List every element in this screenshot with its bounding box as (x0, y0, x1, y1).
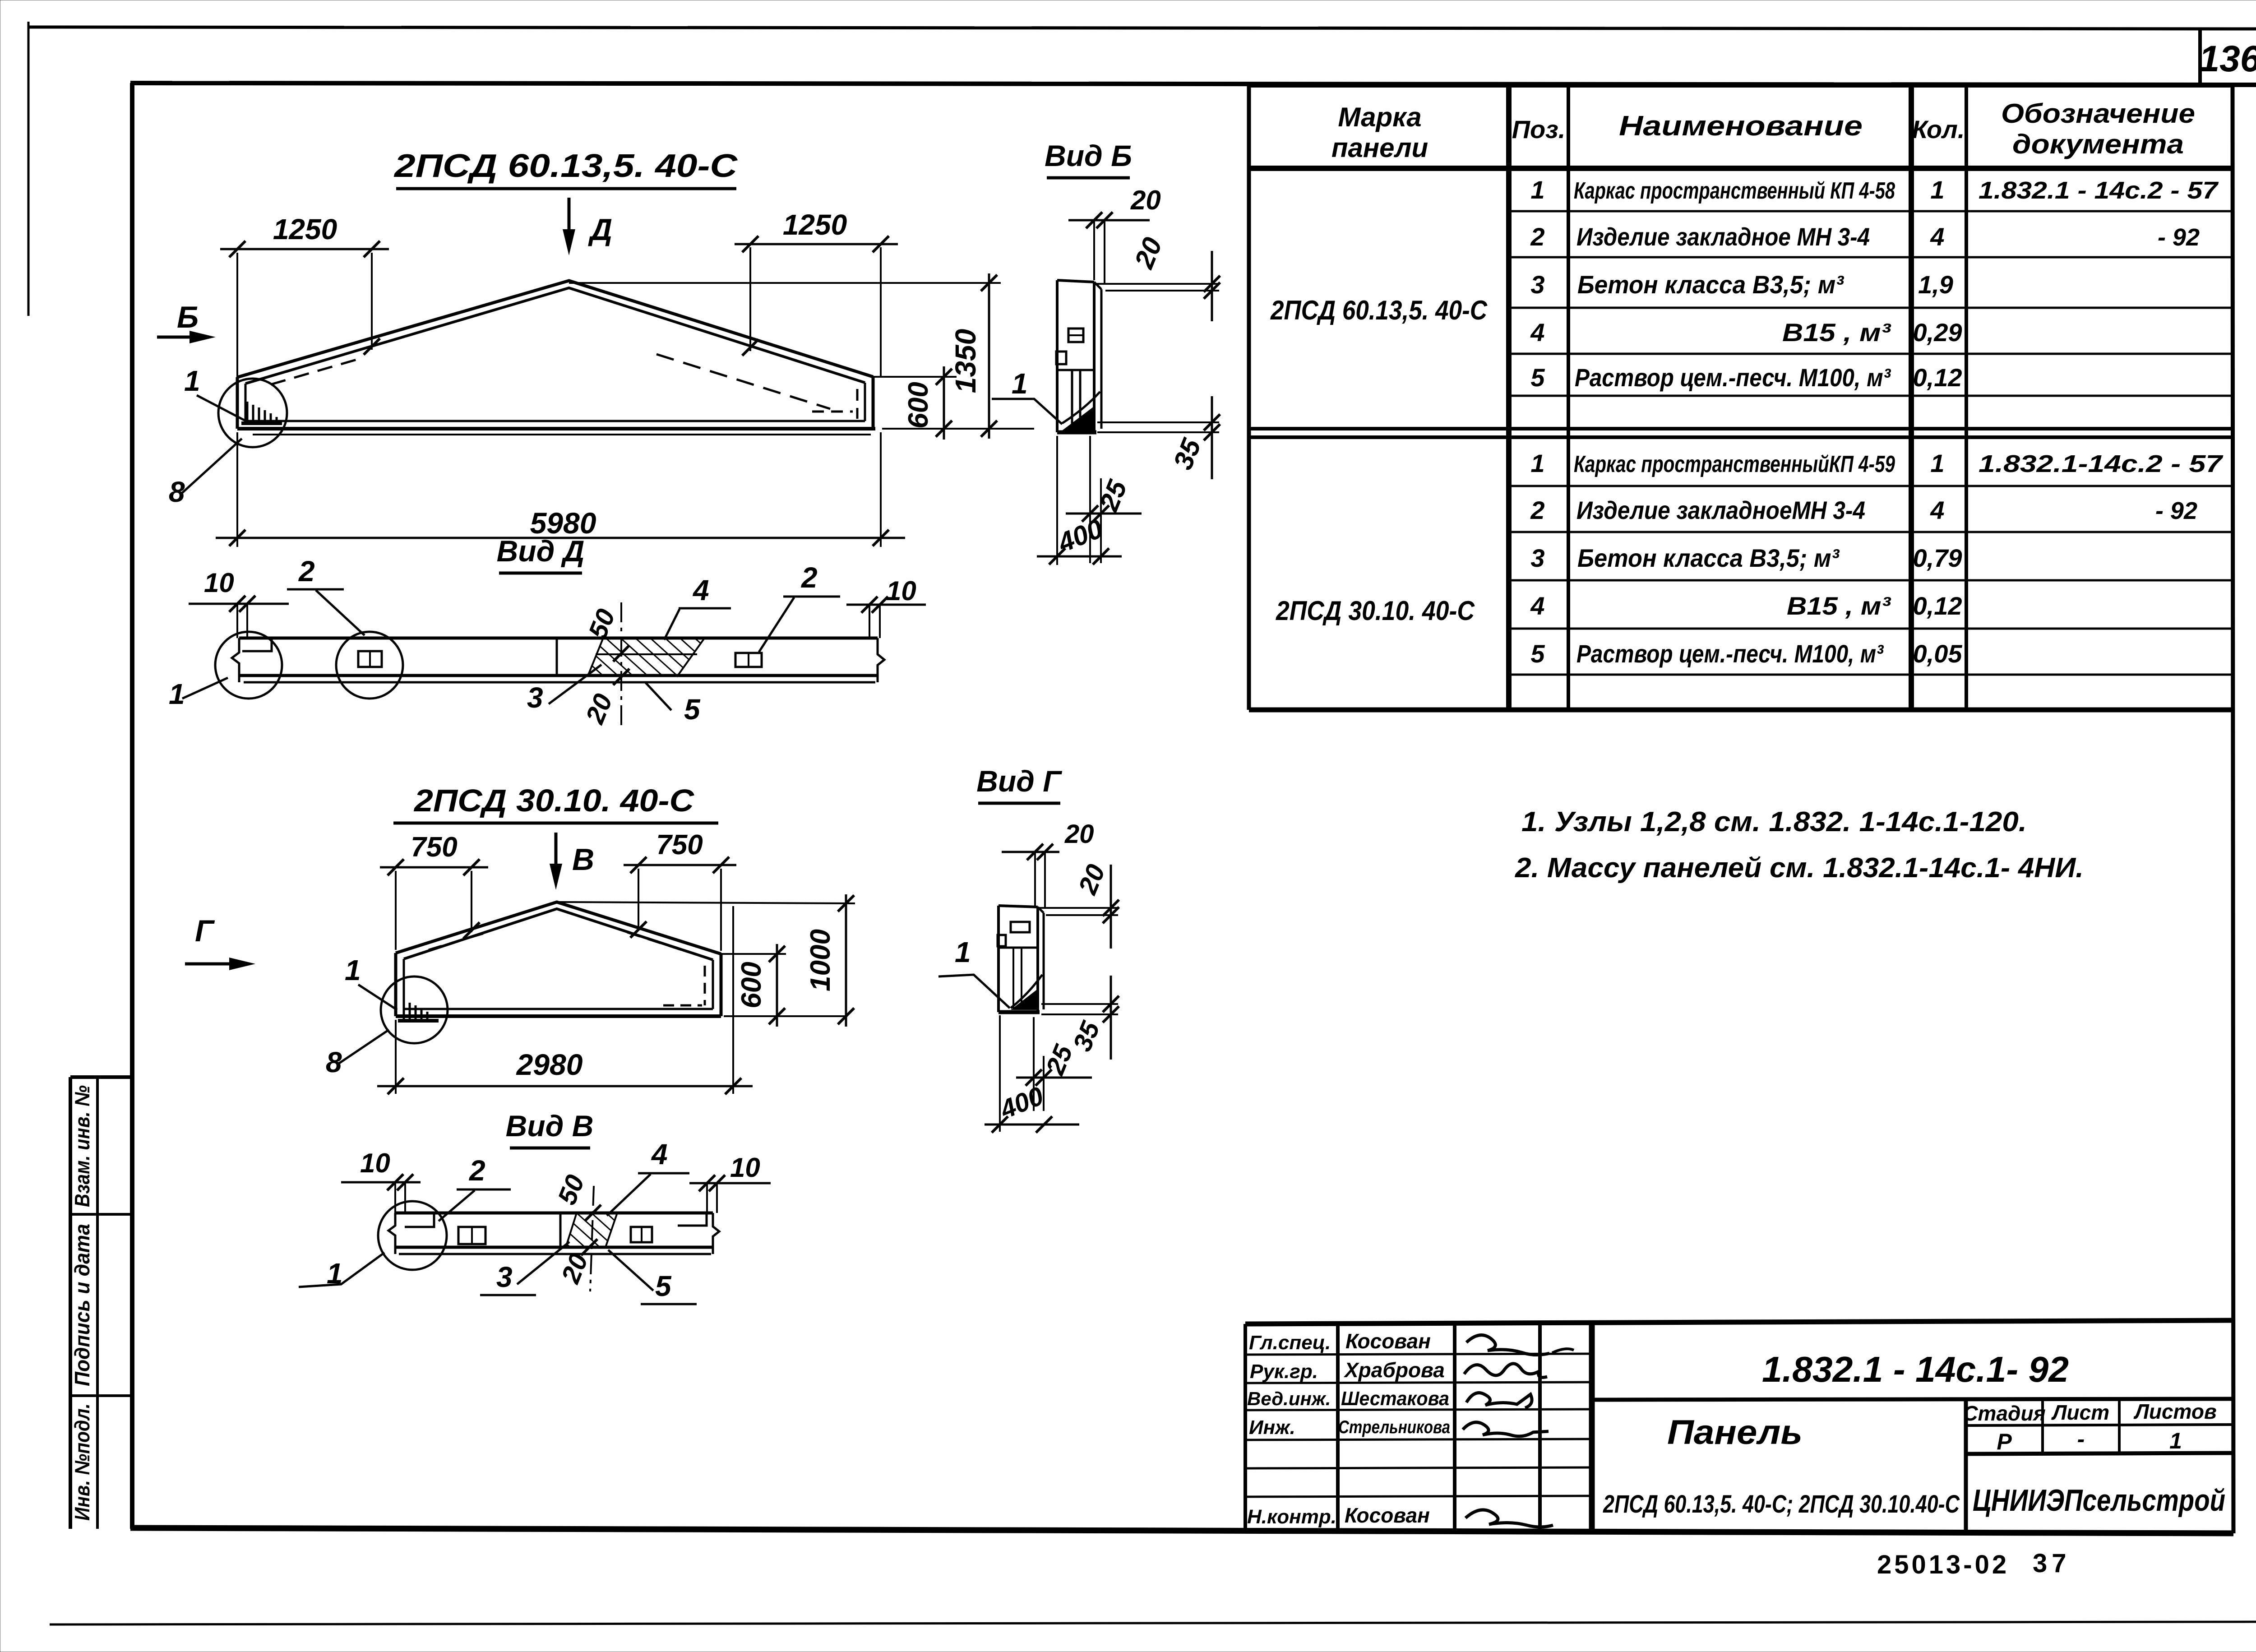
svg-text:Б: Б (177, 300, 199, 334)
svg-text:панели: панели (1331, 133, 1428, 163)
signature squiggle 5 (1465, 1510, 1553, 1527)
svg-text:Косован: Косован (1345, 1504, 1430, 1527)
frame bottom bold line (130, 1528, 2233, 1533)
svg-text:4: 4 (651, 1138, 668, 1171)
svg-text:20: 20 (580, 690, 618, 728)
node circle (218, 379, 287, 447)
apex ext line (557, 902, 855, 903)
embed plate left (458, 1227, 485, 1244)
dim 600 ticks (769, 946, 785, 1024)
signature squiggle 1 (1466, 1335, 1549, 1355)
dim 600 vertical (776, 944, 778, 1027)
dim 2980 ext lines (396, 906, 733, 1094)
svg-text:4: 4 (1530, 318, 1544, 347)
sig col divider 3 (1538, 1322, 1542, 1530)
dim 35 vertical (1110, 976, 1112, 1060)
title block top line (1245, 1320, 2233, 1324)
svg-text:10: 10 (886, 576, 916, 606)
svg-text:25: 25 (1093, 475, 1133, 515)
svg-text:600: 600 (736, 962, 767, 1008)
dim 5980 ticks (229, 530, 889, 546)
row line b1r1 (1509, 210, 2233, 213)
hatch edge ticks (613, 645, 629, 685)
svg-text:Вид В: Вид В (506, 1109, 594, 1143)
embed plate right (735, 653, 762, 667)
dim 20 top ticks (1027, 844, 1053, 860)
dim 10 left ticks (229, 596, 255, 612)
dim 20 right ext lines (1096, 284, 1219, 291)
svg-text:Взам. инв. №: Взам. инв. № (70, 1085, 94, 1207)
VIEW V STRIP (299, 1109, 771, 1304)
svg-text:35: 35 (1167, 434, 1207, 473)
svg-text:1.832.1 - 14с.2 - 57: 1.832.1 - 14с.2 - 57 (1979, 177, 2219, 204)
table left edge (1247, 86, 1251, 710)
dim 400 ticks (992, 1116, 1052, 1133)
dim 10 right ext (707, 1183, 717, 1213)
dim 400 ext line (999, 1015, 1001, 1132)
leader 5 (645, 682, 671, 710)
sig col divider 4 bold (1589, 1322, 1595, 1531)
leader 1 (299, 1253, 384, 1287)
strip right break line (878, 638, 884, 682)
right wall outer (872, 377, 875, 429)
leader 2 (439, 1190, 475, 1221)
svg-text:1: 1 (955, 936, 971, 968)
bottom chord bottom line (237, 427, 875, 430)
svg-text:1: 1 (184, 365, 200, 397)
inner right vertical line (2233, 85, 2233, 1533)
embed plate left (358, 651, 382, 667)
svg-text:- 92: - 92 (2155, 497, 2197, 524)
hatch boundary right (677, 639, 704, 677)
svg-text:2: 2 (1530, 496, 1544, 524)
node circle 2 (336, 632, 403, 699)
svg-text:3: 3 (1530, 544, 1544, 572)
corner curve (1062, 392, 1100, 423)
strip left break line (388, 1213, 395, 1254)
corner diag (1011, 975, 1042, 1008)
svg-text:Вид Б: Вид Б (1045, 139, 1132, 172)
svg-text:1350: 1350 (949, 329, 982, 393)
svg-text:Стадия: Стадия (1963, 1402, 2045, 1425)
svg-text:1: 1 (169, 678, 185, 710)
svg-text:Н.контр.: Н.контр. (1247, 1506, 1336, 1528)
dashed embed bottom right (663, 1004, 702, 1007)
svg-text:Инв. №подл.: Инв. №подл. (70, 1403, 94, 1521)
sig row line 2 (1245, 1382, 1592, 1383)
column outer edge (1043, 913, 1045, 1009)
leader 3 (517, 1242, 569, 1284)
dim 750 left ext (396, 871, 472, 950)
svg-text:2ПСД 60.13,5. 40-С: 2ПСД 60.13,5. 40-С (1270, 295, 1488, 325)
dashed embed right slope (627, 932, 686, 951)
hatch boundary left (587, 639, 603, 677)
row line b2r5 (1509, 674, 2233, 676)
roof outer line (237, 281, 873, 377)
dim 1250 left ticks (229, 241, 380, 257)
strip left break line (232, 638, 239, 682)
dim 20 top ticks (1086, 212, 1113, 228)
svg-text:1: 1 (1930, 449, 1944, 477)
row line b1r4 (1509, 353, 2233, 355)
svg-text:5: 5 (655, 1270, 672, 1302)
svg-text:ЦНИИЭПсельстрой: ЦНИИЭПсельстрой (1973, 1483, 2225, 1518)
dim 1250 right ext lines (749, 247, 751, 351)
leader 4 (664, 609, 680, 640)
dim 5980 ext lines (236, 432, 238, 547)
roof tick left (463, 922, 480, 939)
stamp column divider (96, 1077, 99, 1529)
corner filled wedge (1011, 988, 1039, 1010)
strip lower thin edge (244, 681, 875, 684)
svg-text:2. Массу панелей см. 1.832.1-: 2. Массу панелей см. 1.832.1-14с.1- 4НИ. (1515, 852, 2084, 884)
signature squiggle 2 (1464, 1364, 1547, 1378)
stamp divider line 2 (70, 1394, 132, 1397)
svg-text:Изделие закладноеМН 3-4: Изделие закладноеМН 3-4 (1576, 496, 1865, 524)
interior split line (1057, 369, 1094, 371)
svg-text:5: 5 (684, 693, 701, 726)
column bottom edge (1057, 430, 1096, 435)
svg-text:750: 750 (411, 832, 457, 863)
svg-text:4: 4 (692, 574, 709, 606)
svg-text:Каркас пространственныйКП 4-59: Каркас пространственныйКП 4-59 (1574, 451, 1895, 477)
svg-text:4: 4 (1930, 496, 1944, 524)
svg-text:Д: Д (588, 213, 612, 247)
table block separator lower (1249, 435, 2233, 439)
svg-text:10: 10 (204, 568, 234, 598)
title underline (396, 187, 736, 190)
strip top edge (239, 637, 878, 640)
stadia col divider 2 (2118, 1400, 2121, 1454)
bottom chord bottom line (396, 1014, 721, 1018)
svg-text:3: 3 (1530, 270, 1544, 299)
dim 10 right line (846, 604, 926, 606)
svg-text:Г: Г (195, 914, 215, 948)
stamp divider line 1 (70, 1213, 132, 1216)
svg-text:10: 10 (360, 1148, 390, 1178)
svg-text:1.832.1-14с.2 - 57: 1.832.1-14с.2 - 57 (1979, 450, 2224, 477)
dim 600 ticks (936, 369, 952, 437)
dim 20 rot vertical (1110, 865, 1112, 949)
svg-text:20: 20 (1073, 861, 1111, 899)
node hatch base (398, 1019, 439, 1023)
signature squiggle 3 (1466, 1393, 1532, 1408)
dashed embed right wall (856, 389, 859, 419)
roof tick left quarter (364, 338, 380, 355)
dim 25 line (1016, 1077, 1092, 1079)
strip bottom edge (239, 674, 878, 677)
dim 1350 vertical (988, 273, 990, 439)
roof inner line (404, 909, 713, 960)
leader 1 (358, 985, 397, 1010)
dim 25 ext lines (1034, 1017, 1044, 1111)
row line b1r5 (1509, 395, 2233, 397)
row line b2r1 (1509, 485, 2233, 487)
svg-text:2ПСД 60.13,5. 40-С; 2ПСД 30.10: 2ПСД 60.13,5. 40-С; 2ПСД 30.10.40-С (1603, 1490, 1960, 1518)
svg-text:3: 3 (496, 1261, 513, 1293)
svg-text:1: 1 (345, 954, 361, 986)
svg-text:Вид Д: Вид Д (497, 534, 585, 568)
svg-text:750: 750 (656, 829, 703, 861)
title block left edge (1244, 1324, 1247, 1530)
left wall inner (403, 959, 405, 1009)
left wall inner (245, 384, 247, 421)
svg-text:Вид Г: Вид Г (976, 764, 1062, 798)
column left edge (1056, 280, 1059, 432)
embed plate right (631, 1227, 652, 1242)
row line b1r2 (1509, 256, 2233, 259)
svg-text:0,79: 0,79 (1913, 544, 1962, 572)
dim 400 ext line (1056, 436, 1058, 565)
svg-text:1: 1 (1930, 176, 1944, 204)
title underline (978, 802, 1060, 805)
svg-text:2ПСД 60.13,5. 40-С: 2ПСД 60.13,5. 40-С (393, 148, 738, 184)
stamp top line (70, 1075, 132, 1079)
dim 10 left ext (395, 1182, 405, 1213)
title underline (510, 1147, 590, 1150)
dim 750 right ticks (630, 857, 729, 873)
dim 20 top ext lines (1094, 220, 1105, 284)
dim 25 ticks (1026, 1069, 1052, 1086)
svg-text:4: 4 (1930, 222, 1944, 251)
hatch inner line (596, 653, 697, 655)
leader 8 (182, 439, 242, 493)
roof inner line (245, 288, 865, 384)
svg-text:1,9: 1,9 (1918, 270, 1953, 299)
svg-text:1: 1 (1530, 449, 1544, 477)
svg-text:2: 2 (298, 555, 315, 588)
svg-text:4: 4 (1530, 592, 1544, 620)
svg-text:1: 1 (2169, 1428, 2182, 1453)
node circle left (215, 632, 282, 699)
row line b2r2 (1509, 531, 2233, 533)
vertical stadia divider (1964, 1400, 1968, 1531)
inner frame left line (130, 83, 134, 1529)
dashed embed right wall (704, 966, 706, 1005)
dim 750 left line (380, 866, 488, 869)
svg-text:1: 1 (1012, 367, 1028, 400)
dim 5980 line (216, 537, 905, 539)
strip right break line (713, 1213, 719, 1254)
dim 25 ext lines (1090, 436, 1101, 563)
svg-text:5: 5 (1530, 363, 1545, 392)
ext line bottom right (724, 1015, 847, 1017)
column chamfer (1038, 907, 1044, 913)
dim 10 right ticks (861, 597, 888, 613)
right wall inner (864, 383, 866, 421)
svg-text:документа: документа (2012, 129, 2184, 159)
joint line (559, 1213, 562, 1247)
table bottom line (1249, 708, 2233, 713)
dim 750 right ext (638, 869, 721, 951)
table col Обозначение left (1965, 86, 1968, 710)
svg-text:1000: 1000 (805, 929, 836, 991)
svg-text:5: 5 (1530, 639, 1545, 668)
hatch boundary right (606, 1213, 617, 1247)
svg-text:В15 , м³: В15 , м³ (1782, 318, 1891, 347)
table col Наименование left (1567, 86, 1570, 710)
svg-text:2ПСД 30.10. 40-С: 2ПСД 30.10. 40-С (413, 783, 695, 818)
dim 10 left ext (237, 604, 247, 638)
dashed embed left slope (271, 360, 356, 384)
dim 1250 left ext lines (236, 253, 238, 377)
svg-text:20: 20 (1128, 233, 1168, 273)
title underline (499, 572, 582, 575)
strip lower thin edge (399, 1253, 711, 1255)
svg-text:1250: 1250 (273, 213, 337, 245)
TABLE (1249, 86, 2233, 710)
dim 20 top line (1068, 219, 1150, 222)
row line b2r4 (1509, 628, 2233, 630)
dim 400 line (985, 1124, 1079, 1126)
dim 10 left ticks (387, 1174, 413, 1190)
section arrow Д (568, 198, 571, 241)
svg-text:Бетон класса В3,5; м³: Бетон класса В3,5; м³ (1577, 270, 1844, 299)
svg-text:2980: 2980 (516, 1048, 583, 1081)
interior split line (999, 947, 1038, 949)
bottom chord top line (245, 420, 865, 422)
svg-text:Листов: Листов (2133, 1400, 2216, 1423)
svg-text:Кол.: Кол. (1912, 115, 1965, 143)
svg-text:3: 3 (527, 681, 543, 714)
right wall inner (712, 960, 714, 1009)
svg-text:600: 600 (903, 382, 934, 428)
dashed embed bottom right (812, 411, 853, 413)
sig row line 3 (1245, 1409, 1592, 1410)
strip bottom edge (395, 1246, 713, 1249)
sig row line 4 (1245, 1439, 1592, 1440)
dim 400 ticks (1049, 548, 1109, 565)
sig col divider 1 (1336, 1323, 1340, 1530)
leader 1 (197, 395, 246, 421)
dashed embed left slope (429, 932, 487, 950)
svg-text:400: 400 (996, 1081, 1048, 1125)
svg-text:20: 20 (1064, 819, 1094, 849)
svg-text:1. Узлы 1,2,8 см. 1.832. 1-14: 1. Узлы 1,2,8 см. 1.832. 1-14с.1-120. (1521, 806, 2027, 838)
interior bar lines (1013, 948, 1022, 1010)
stadia header row line (1966, 1425, 2233, 1425)
svg-text:Шестакова: Шестакова (1341, 1388, 1449, 1410)
embed square left (998, 935, 1006, 946)
node hatch strokes (247, 402, 277, 423)
chord lower thin line (253, 434, 871, 435)
svg-text:37: 37 (2033, 1549, 2071, 1578)
svg-text:2: 2 (801, 561, 818, 594)
title underline (393, 822, 718, 825)
title underline (1047, 176, 1130, 180)
svg-text:Раствор цем.-песч. М100, м³: Раствор цем.-песч. М100, м³ (1575, 363, 1891, 392)
right notch (678, 1214, 707, 1226)
stadia col divider 1 (2041, 1400, 2044, 1454)
svg-text:35: 35 (1068, 1017, 1106, 1055)
svg-text:Раствор цем.-песч. М100, м³: Раствор цем.-песч. М100, м³ (1576, 639, 1884, 668)
dim 35 ext lines (1041, 1004, 1118, 1014)
dim 20 right vertical (1211, 251, 1213, 321)
right wall outer (720, 954, 723, 1016)
inner frame top line (130, 83, 2256, 85)
table block separator upper (1249, 427, 2233, 430)
dim 1350 ticks (981, 275, 997, 437)
svg-text:В15 , м³: В15 , м³ (1787, 592, 1891, 620)
dim 1250 right line (735, 243, 898, 245)
dim 35 ticks (1103, 996, 1119, 1023)
ext line 600 top (873, 376, 957, 378)
section arrow Б (157, 336, 202, 339)
dim 20 right ticks (1204, 276, 1220, 299)
dim 750 right line (624, 864, 736, 866)
dim 10 right ticks (699, 1175, 725, 1191)
doc number underline row (1592, 1399, 2233, 1400)
sig col divider 2 (1453, 1323, 1456, 1530)
leader 1 (938, 975, 1010, 1008)
row line b1r3 (1509, 307, 2233, 309)
leader 8 (339, 1030, 389, 1063)
dim 2980 ticks (388, 1078, 741, 1094)
apex extension line (569, 282, 1001, 284)
hatch edge ticks (581, 1205, 601, 1255)
svg-text:0,12: 0,12 (1913, 363, 1962, 392)
VIEW D STRIP (169, 534, 926, 729)
svg-text:1: 1 (1530, 176, 1544, 204)
dim 35 ext lines (1097, 422, 1219, 432)
svg-text:Бетон класса В3,5; м³: Бетон класса В3,5; м³ (1577, 544, 1840, 572)
dim 10 right line (689, 1182, 771, 1185)
dim 1000 ticks (838, 895, 854, 1024)
page number box (2198, 29, 2202, 85)
left wall outer (394, 953, 398, 1016)
svg-text:0,29: 0,29 (1913, 318, 1962, 347)
dim 400 line (1037, 555, 1122, 558)
grout hatch area (587, 639, 704, 677)
embed square left (1056, 352, 1066, 364)
joint centerline (620, 602, 622, 729)
left wall outer (236, 377, 239, 429)
node hatch base (241, 421, 282, 425)
VIEW B COLUMN (992, 139, 1220, 565)
dim 1250 left line (220, 248, 389, 250)
svg-text:10: 10 (730, 1152, 760, 1183)
svg-text:1250: 1250 (783, 208, 847, 241)
svg-text:136: 136 (2199, 38, 2256, 79)
outer bottom border line (50, 1622, 2256, 1624)
dim 10 right ext (869, 605, 880, 638)
svg-text:0,12: 0,12 (1913, 592, 1962, 620)
svg-text:Косован: Косован (1345, 1329, 1431, 1353)
corner filled wedge (1062, 405, 1096, 430)
grout hatch area (566, 1213, 617, 1247)
column bottom edge (999, 1010, 1040, 1014)
column left edge (997, 906, 1000, 1012)
svg-text:Наименование: Наименование (1619, 111, 1863, 142)
column top edge (999, 906, 1038, 907)
svg-text:20: 20 (1130, 185, 1161, 215)
interior bar lines (1072, 370, 1080, 430)
table col Кол left (1909, 86, 1914, 710)
roof outer line (396, 902, 721, 954)
dim 20 rot ext (1040, 908, 1118, 915)
LEFT STAMP COLUMN (70, 1077, 132, 1529)
svg-text:В: В (572, 842, 594, 877)
column right edge (1036, 907, 1039, 1012)
dim 750 left ticks (388, 859, 480, 875)
dim 10 left line (341, 1181, 421, 1184)
dim 20 top line (1002, 851, 1059, 853)
leader 5 (608, 1250, 653, 1291)
column corner chamfer (1094, 282, 1101, 289)
svg-text:Изделие закладное МН 3-4: Изделие закладное МН 3-4 (1576, 222, 1870, 251)
TITLE BLOCK (1245, 1320, 2233, 1579)
dim 1000 vertical (845, 894, 847, 1027)
